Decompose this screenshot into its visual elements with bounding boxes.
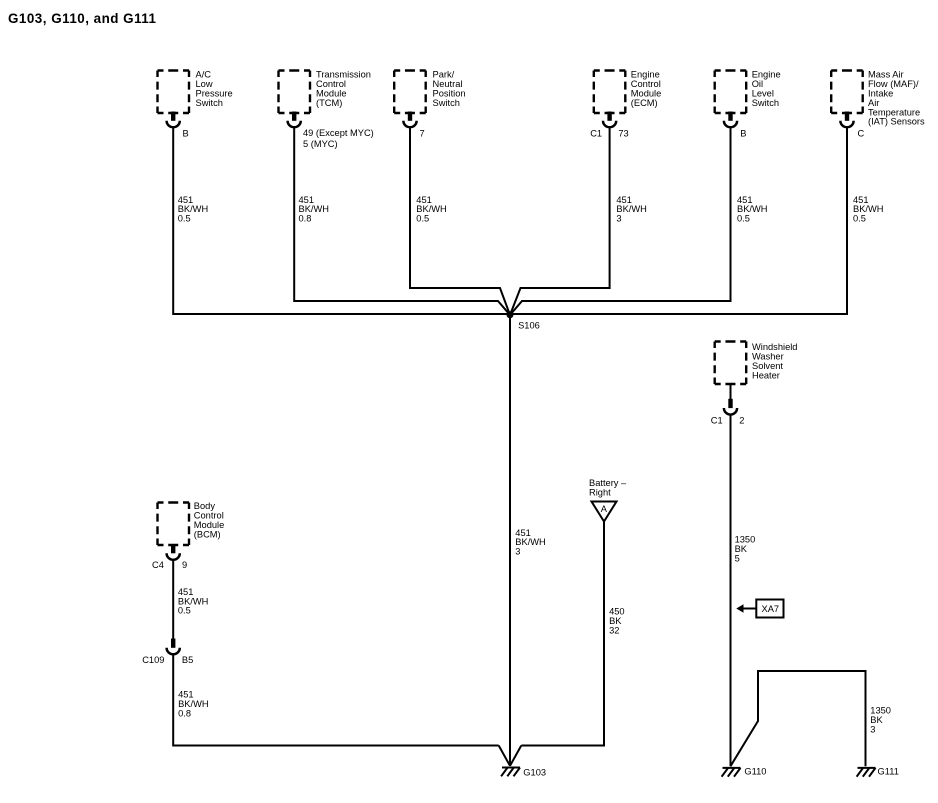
wire V-joint into ground G103: [499, 746, 522, 766]
wire 451 BK/WH 0.5 from Park/Neutral switch to S106: [410, 128, 510, 315]
svg-text:(BCM): (BCM): [194, 529, 221, 539]
svg-text:Right: Right: [589, 488, 611, 498]
svg-text:0.5: 0.5: [853, 214, 866, 224]
svg-text:(IAT) Sensors: (IAT) Sensors: [868, 117, 925, 127]
svg-text:B: B: [740, 129, 746, 139]
connector C4 pin 9 of BCM: [152, 544, 187, 570]
connector C1 pin 2 of washer heater: [711, 399, 745, 426]
component Windshield Washer Solvent Heater (dashed box): [715, 342, 798, 385]
svg-text:0.5: 0.5: [737, 214, 750, 224]
label wire battery 450 BK 32: [609, 607, 625, 636]
svg-text:3: 3: [616, 214, 621, 224]
svg-text:C1: C1: [711, 416, 723, 426]
label wire C109 451 BK/WH 0.8: [178, 690, 208, 719]
wire 451 BK/WH 0.5 from MAF/IAT sensors to S106: [510, 128, 847, 314]
component Mass Air Flow MAF / IAT Sensors (dashed box): [831, 70, 925, 127]
svg-text:73: 73: [618, 129, 628, 139]
svg-text:Switch: Switch: [196, 98, 223, 108]
component Body Control Module BCM (dashed box): [158, 501, 225, 545]
connector C1 pin 73 of ECM: [590, 112, 629, 139]
label wire A/C 451 BK/WH 0.5: [178, 195, 208, 224]
label wire ECM 451 BK/WH 3: [616, 195, 646, 224]
svg-text:Switch: Switch: [752, 98, 779, 108]
svg-text:5: 5: [735, 554, 740, 564]
component Park/Neutral Position Switch (dashed box): [394, 70, 465, 113]
svg-text:B: B: [183, 129, 189, 139]
wire 1350 BK 5 from C1 to G110: [730, 415, 732, 766]
connector pin B of Engine Oil Level Switch: [724, 112, 747, 139]
svg-text:(ECM): (ECM): [631, 98, 658, 108]
ground G110: [722, 767, 767, 777]
connector reference XA7 callout with arrow: [736, 600, 783, 618]
svg-text:49 (Except MYC): 49 (Except MYC): [303, 128, 374, 138]
svg-text:G110: G110: [744, 767, 766, 777]
wire from washer heater to connector C1: [730, 384, 732, 400]
label wire branch 1350 BK 3: [870, 706, 891, 735]
svg-text:Switch: Switch: [433, 98, 460, 108]
svg-text:C1: C1: [590, 129, 602, 139]
svg-text:C4: C4: [152, 560, 164, 570]
connector pin C of MAF/IAT sensors: [840, 112, 864, 139]
label wire Oil Level 451 BK/WH 0.5: [737, 195, 767, 224]
svg-text:Heater: Heater: [752, 370, 780, 380]
connector pin 7 of Park/Neutral switch: [403, 112, 424, 139]
component Engine Control Module ECM (dashed box): [594, 70, 662, 113]
svg-text:XA7: XA7: [762, 604, 780, 614]
svg-text:5 (MYC): 5 (MYC): [303, 139, 338, 149]
svg-text:7: 7: [420, 129, 425, 139]
wire 451 BK/WH 3 from S106 down to G103: [509, 315, 511, 766]
svg-text:A: A: [601, 504, 608, 514]
component Transmission Control Module TCM (dashed box): [279, 70, 371, 113]
component Engine Oil Level Switch (dashed box): [715, 70, 781, 113]
svg-text:G103: G103: [523, 768, 546, 778]
connector pin 49/5 of TCM: [288, 112, 374, 150]
svg-text:G111: G111: [878, 767, 899, 777]
svg-text:0.8: 0.8: [178, 708, 191, 718]
svg-text:0.5: 0.5: [178, 606, 191, 616]
component Battery - Right terminal: [589, 478, 627, 521]
component A/C Low Pressure Switch (dashed box): [158, 70, 233, 113]
connector C109 pin B5 in-line: [142, 639, 193, 666]
label wire S106-G103 451 BK/WH 3: [515, 528, 545, 557]
wire 451 BK/WH 3 from ECM to S106: [510, 128, 610, 315]
wire 451 BK/WH 0.8 from TCM to S106: [294, 128, 510, 315]
label wire BCM 451 BK/WH 0.5: [178, 587, 208, 616]
label wire MAF 451 BK/WH 0.5: [853, 195, 883, 224]
wire 450 BK 32 from Battery Right to G103 bus: [521, 522, 604, 746]
svg-text:32: 32: [609, 626, 619, 636]
svg-text:3: 3: [870, 725, 875, 735]
svg-text:C: C: [858, 129, 865, 139]
svg-text:0.5: 0.5: [416, 214, 429, 224]
ground G111: [857, 767, 899, 777]
ground G103: [501, 768, 546, 778]
svg-text:(TCM): (TCM): [316, 98, 342, 108]
wire 451 BK/WH 0.5 from BCM to C109: [172, 561, 174, 641]
wire branch 1350 BK 3 from G110 to G111: [731, 671, 866, 766]
svg-text:G103, G110, and G111: G103, G110, and G111: [8, 11, 157, 26]
label wire washer 1350 BK 5: [735, 535, 756, 564]
svg-text:S106: S106: [518, 321, 540, 331]
svg-text:9: 9: [182, 560, 187, 570]
connector pin B of A/C switch: [167, 112, 189, 139]
wire 451 BK/WH 0.8 from C109 to G103 bus: [173, 655, 499, 746]
label wire Park/Neutral 451 BK/WH 0.5: [416, 195, 446, 224]
wire 451 BK/WH 0.5 from A/C switch to S106: [173, 128, 510, 314]
svg-text:0.5: 0.5: [178, 214, 191, 224]
svg-text:C109: C109: [142, 655, 164, 665]
wire 451 BK/WH 0.5 from Engine Oil Level Switch to S106: [510, 128, 731, 315]
svg-text:B5: B5: [182, 655, 193, 665]
splice S106 junction dot: [507, 311, 540, 330]
svg-text:0.8: 0.8: [299, 214, 312, 224]
label wire TCM 451 BK/WH 0.8: [299, 195, 329, 224]
svg-text:3: 3: [515, 547, 520, 557]
svg-text:2: 2: [739, 416, 744, 426]
